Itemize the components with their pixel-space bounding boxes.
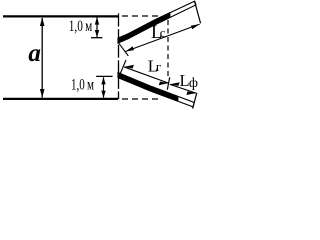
svg-text:c: c [160,25,166,40]
svg-text:1,0 м: 1,0 м [69,18,93,35]
svg-text:1,0 м: 1,0 м [71,77,94,94]
svg-text:ф: ф [189,76,198,91]
svg-text:a: a [28,40,41,67]
svg-text:г: г [156,59,161,74]
